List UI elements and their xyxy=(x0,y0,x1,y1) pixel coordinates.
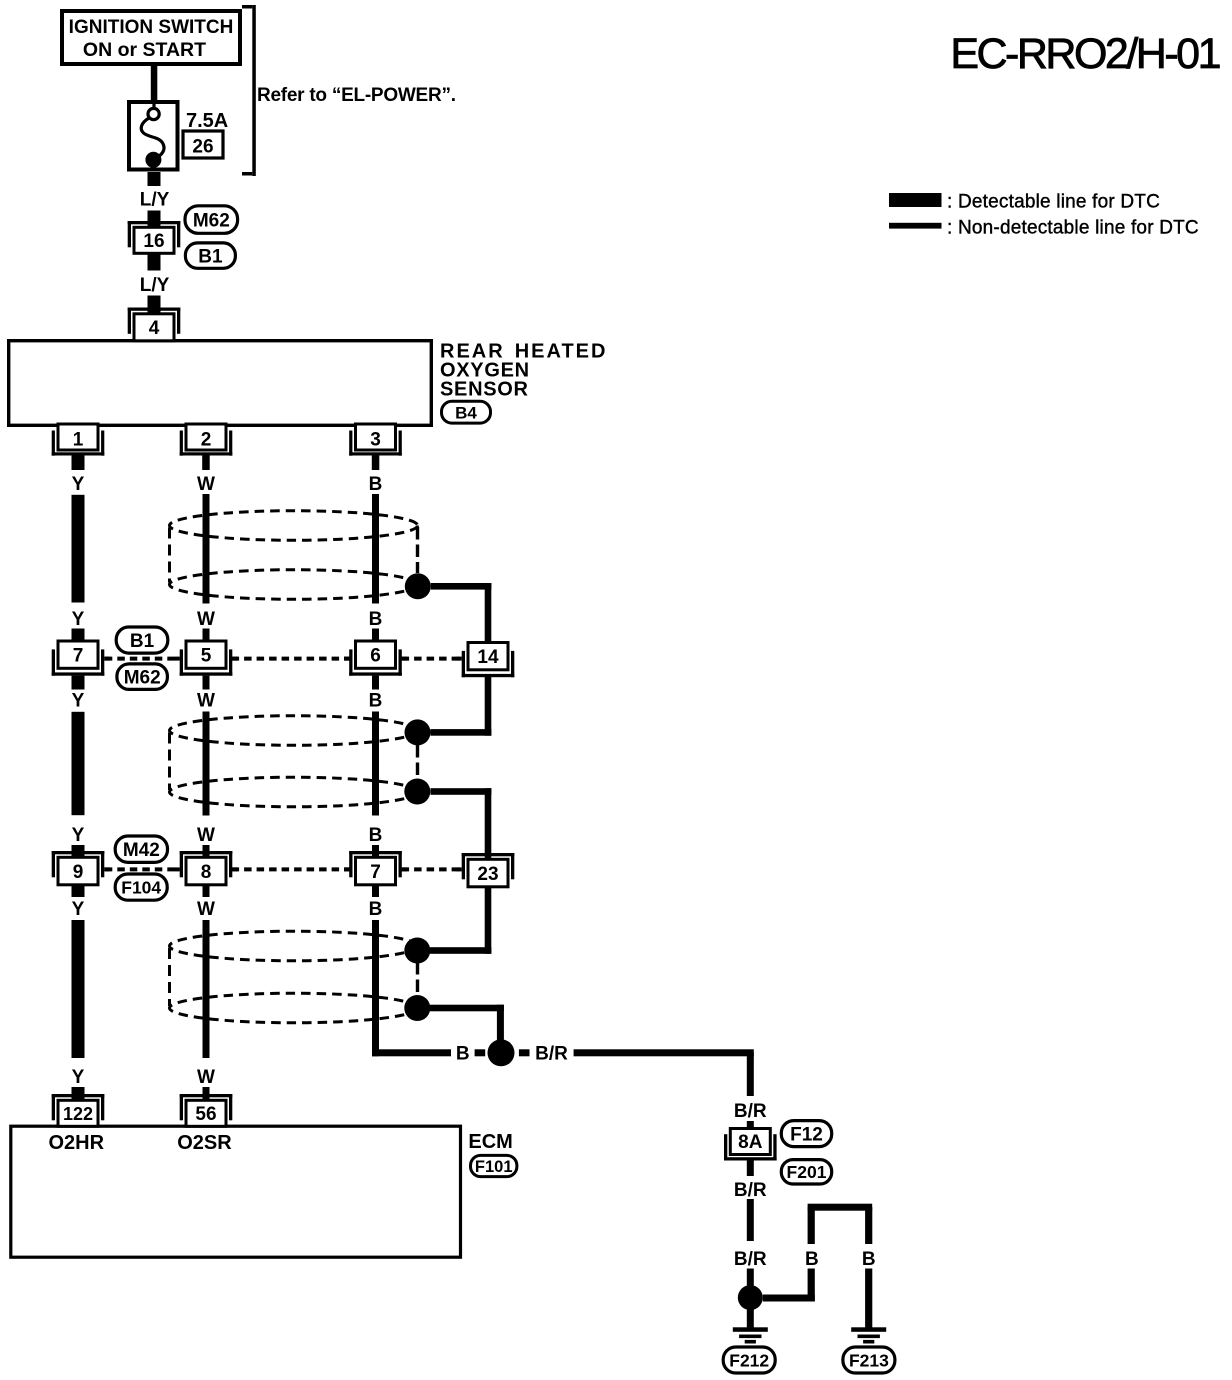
svg-text:9: 9 xyxy=(73,862,84,883)
svg-text:W: W xyxy=(197,691,215,712)
svg-text:B/R: B/R xyxy=(734,1101,767,1122)
svg-text:7: 7 xyxy=(73,645,84,666)
svg-text:L/Y: L/Y xyxy=(140,275,170,296)
svg-text:EC-RRO2/H-01: EC-RRO2/H-01 xyxy=(950,30,1219,78)
svg-text:B1: B1 xyxy=(130,631,155,652)
svg-text:Refer to “EL-POWER”.: Refer to “EL-POWER”. xyxy=(257,85,456,106)
svg-text:W: W xyxy=(197,474,215,495)
svg-text:Y: Y xyxy=(72,825,85,846)
svg-text:B: B xyxy=(369,899,383,920)
svg-text:IGNITION SWITCH: IGNITION SWITCH xyxy=(69,17,234,38)
svg-text:B: B xyxy=(456,1044,470,1065)
svg-text:B/R: B/R xyxy=(535,1044,568,1065)
svg-text:: Non-detectable line for DTC: : Non-detectable line for DTC xyxy=(947,218,1199,239)
svg-text:M42: M42 xyxy=(123,840,160,861)
svg-text:F101: F101 xyxy=(475,1158,513,1176)
svg-text:B/R: B/R xyxy=(734,1249,767,1270)
svg-text:M62: M62 xyxy=(124,667,161,688)
svg-text:2: 2 xyxy=(201,430,212,451)
svg-text:B: B xyxy=(862,1249,876,1270)
svg-text:7: 7 xyxy=(370,862,381,883)
svg-text:O2SR: O2SR xyxy=(177,1132,232,1154)
svg-text:F213: F213 xyxy=(849,1350,889,1370)
svg-text:SENSOR: SENSOR xyxy=(440,379,529,401)
svg-text:B/R: B/R xyxy=(734,1180,767,1201)
svg-text:W: W xyxy=(197,899,215,920)
svg-text:4: 4 xyxy=(149,318,160,339)
svg-text:5: 5 xyxy=(201,645,212,666)
svg-text:Y: Y xyxy=(72,691,85,712)
svg-text:26: 26 xyxy=(192,137,213,158)
svg-text:B4: B4 xyxy=(455,403,477,422)
svg-text:M62: M62 xyxy=(193,210,230,231)
svg-text:B: B xyxy=(369,691,383,712)
svg-text:F104: F104 xyxy=(121,877,161,897)
svg-text:B1: B1 xyxy=(198,246,223,267)
svg-text:L/Y: L/Y xyxy=(140,190,170,211)
svg-text:Y: Y xyxy=(72,474,85,495)
svg-text:B: B xyxy=(369,609,383,630)
svg-text:16: 16 xyxy=(143,231,164,252)
svg-text:W: W xyxy=(197,609,215,630)
svg-text:B: B xyxy=(369,825,383,846)
svg-text:F212: F212 xyxy=(729,1350,769,1370)
svg-text:Y: Y xyxy=(72,1067,85,1088)
svg-text:56: 56 xyxy=(195,1104,216,1125)
svg-text:ON or START: ON or START xyxy=(83,39,206,61)
svg-text:1: 1 xyxy=(73,430,84,451)
svg-text:122: 122 xyxy=(63,1104,93,1124)
svg-text:B: B xyxy=(805,1249,819,1270)
svg-text:Y: Y xyxy=(72,899,85,920)
svg-text:: Detectable line for DTC: : Detectable line for DTC xyxy=(947,192,1160,213)
svg-text:6: 6 xyxy=(370,645,381,666)
svg-text:3: 3 xyxy=(370,430,381,451)
svg-text:Y: Y xyxy=(72,609,85,630)
svg-text:W: W xyxy=(197,1067,215,1088)
svg-text:B: B xyxy=(369,474,383,495)
svg-text:7.5A: 7.5A xyxy=(186,110,228,132)
svg-text:O2HR: O2HR xyxy=(49,1132,105,1154)
svg-text:14: 14 xyxy=(477,647,499,668)
svg-text:ECM: ECM xyxy=(468,1131,512,1153)
svg-text:23: 23 xyxy=(477,864,498,885)
svg-text:8A: 8A xyxy=(738,1132,763,1153)
svg-text:F12: F12 xyxy=(790,1124,823,1145)
svg-text:8: 8 xyxy=(201,862,212,883)
svg-text:W: W xyxy=(197,825,215,846)
svg-text:F201: F201 xyxy=(787,1162,827,1182)
